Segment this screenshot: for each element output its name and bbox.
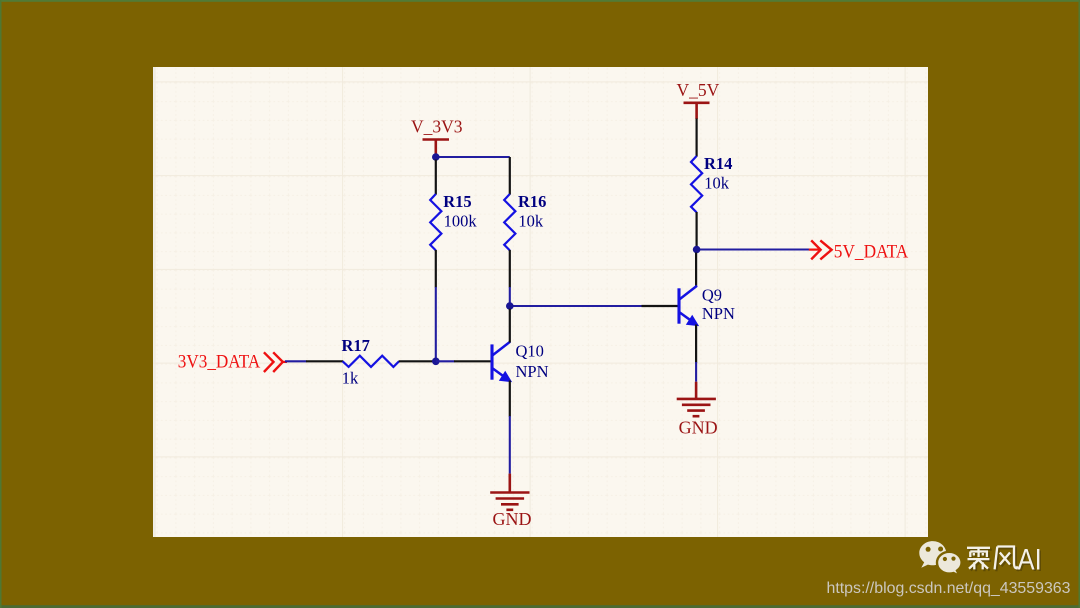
resistor R17 xyxy=(306,336,436,387)
svg-text:V_3V3: V_3V3 xyxy=(411,117,463,137)
glyph Feng (风) xyxy=(995,547,1018,570)
wire R15 bottom to base rail xyxy=(435,287,437,361)
wire Q10 emitter to GND xyxy=(509,416,511,474)
svg-text:100k: 100k xyxy=(444,211,478,230)
pin 1 R17 xyxy=(306,360,343,362)
junction node Q10 collector xyxy=(506,302,514,310)
svg-text:V_5V: V_5V xyxy=(677,80,720,100)
junction node R17 / R15 xyxy=(432,358,440,366)
transistor Q10 xyxy=(492,342,549,382)
junction node at V_3V3 xyxy=(432,153,440,161)
svg-text:GND: GND xyxy=(493,509,532,529)
svg-text:https://blog.csdn.net/qq_43559: https://blog.csdn.net/qq_43559363 xyxy=(827,580,1071,597)
svg-text:NPN: NPN xyxy=(516,362,549,381)
svg-text:GND: GND xyxy=(679,417,718,437)
svg-text:AI: AI xyxy=(1018,544,1042,577)
schematic sheet background xyxy=(153,67,928,537)
svg-text:R15: R15 xyxy=(443,192,471,211)
resistor R16 xyxy=(504,157,546,288)
svg-text:3V3_DATA: 3V3_DATA xyxy=(178,353,261,373)
pin 2 R14 xyxy=(695,212,697,250)
sheet left edge shading xyxy=(153,67,156,537)
pin Q10 base xyxy=(454,360,491,362)
svg-text:NPN: NPN xyxy=(702,304,735,323)
pin 2 R15 xyxy=(435,250,437,288)
port 5V_DATA xyxy=(809,240,909,262)
wire port to R17 xyxy=(285,360,307,362)
transistor Q9 xyxy=(679,286,735,326)
body R14 xyxy=(691,156,702,212)
pin Q9 emitter xyxy=(695,325,697,363)
wire Q10 collector node to Q9 base xyxy=(510,305,642,307)
svg-text:Q10: Q10 xyxy=(516,342,544,361)
resistor R14 xyxy=(691,119,732,250)
pin 1 R16 xyxy=(509,157,511,195)
body R17 xyxy=(343,356,399,367)
wire junction to Q10 base xyxy=(436,360,455,362)
ground GND (Q9) xyxy=(677,382,718,438)
pin 2 R17 xyxy=(399,360,436,362)
pin Q10 emitter xyxy=(509,381,511,417)
power port V_3V3 xyxy=(411,117,463,156)
wire Q9 emitter to GND xyxy=(695,362,697,382)
pin 2 R16 xyxy=(509,250,511,288)
watermark wechat icon xyxy=(919,541,961,576)
watermark brand text xyxy=(969,548,1020,571)
body R15 xyxy=(430,194,441,250)
wire collector node to port 5V_DATA xyxy=(697,248,810,250)
wire V_3V3 horizontal xyxy=(436,156,510,158)
svg-text:R14: R14 xyxy=(704,154,732,173)
wire R16 bottom to Q9 base rail xyxy=(509,287,511,306)
glyph Ji (霁) xyxy=(967,548,990,570)
pin Q10 collector xyxy=(509,309,511,343)
svg-text:5V_DATA: 5V_DATA xyxy=(834,243,909,263)
pin Q9 collector xyxy=(695,253,697,287)
ground GND (Q10) xyxy=(490,474,531,530)
svg-text:1k: 1k xyxy=(342,369,359,388)
svg-text:10k: 10k xyxy=(518,211,544,230)
power port V_5V xyxy=(677,80,720,119)
body R16 xyxy=(504,194,515,250)
pin 1 R14 xyxy=(695,119,697,157)
svg-text:10k: 10k xyxy=(704,173,730,192)
pin Q9 base xyxy=(642,305,679,307)
green outer frame xyxy=(0,0,1080,2)
port 3V3_DATA xyxy=(178,352,287,372)
svg-text:R17: R17 xyxy=(342,336,370,355)
resistor R15 xyxy=(430,160,477,288)
pin 1 R15 xyxy=(435,160,437,195)
svg-text:Q9: Q9 xyxy=(702,286,722,305)
junction node R14 / Q9 collector xyxy=(693,246,701,254)
svg-text:R16: R16 xyxy=(518,192,546,211)
major grid (solid) xyxy=(153,67,928,537)
